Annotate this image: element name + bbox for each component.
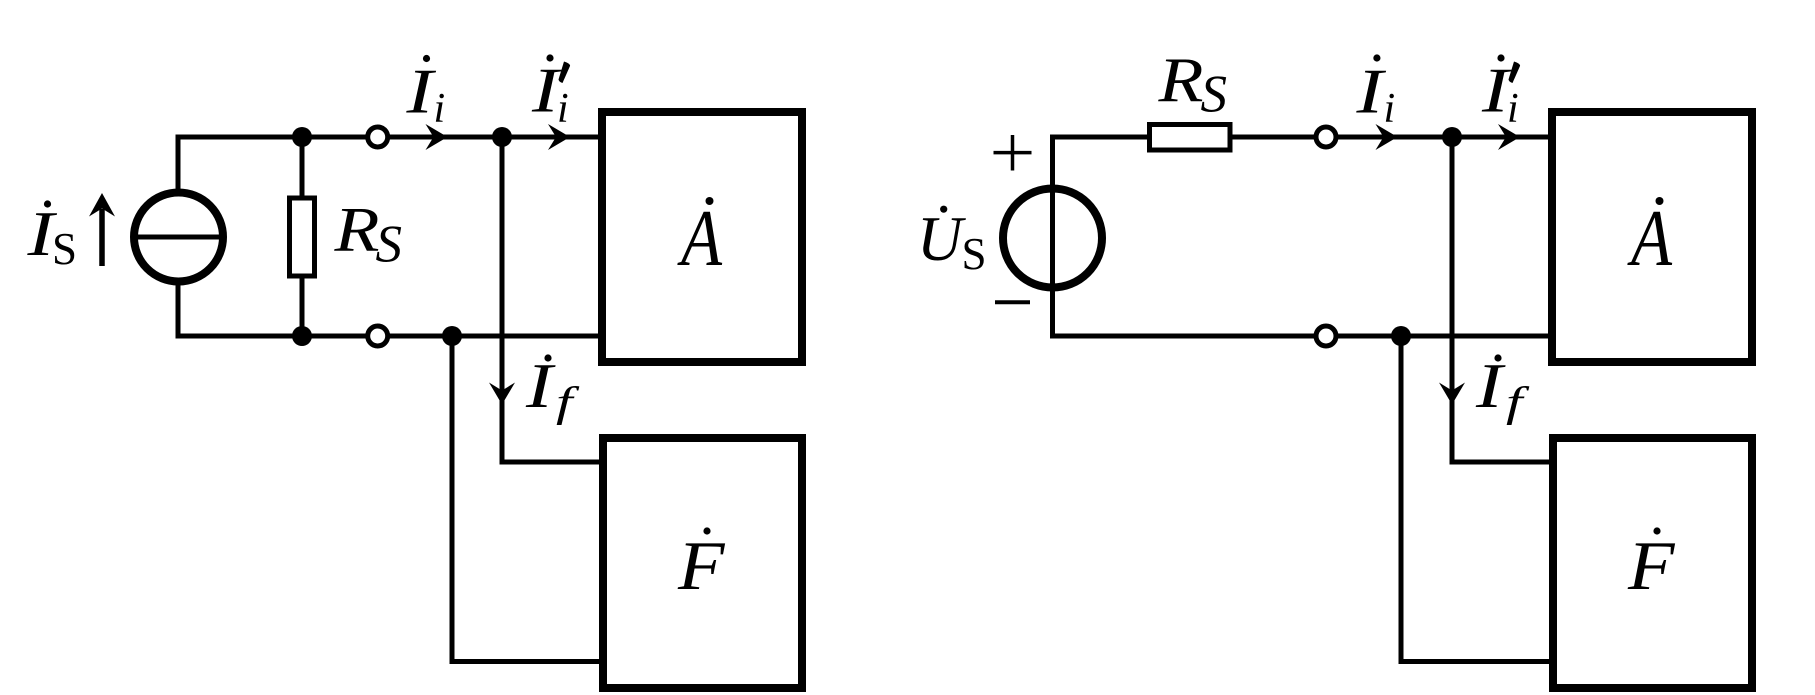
amplifier block A (right circuit) — [1552, 112, 1752, 362]
resistor RS vertical (left circuit) — [290, 198, 315, 276]
feedback block F (left circuit) — [603, 438, 802, 688]
svg-text:f: f — [1506, 380, 1530, 426]
amplifier block A (left circuit) — [602, 112, 802, 362]
label F (right circuit) — [1627, 527, 1676, 605]
svg-text:U: U — [917, 204, 966, 274]
label Ii (left circuit) — [405, 55, 445, 132]
wire feedback return bottom (left circuit) — [452, 336, 599, 662]
label Ii prime (right circuit) — [1481, 54, 1520, 132]
junction dot resistor bottom (left circuit) — [292, 326, 312, 346]
label A (left circuit) — [677, 195, 723, 283]
svg-text:S: S — [52, 224, 77, 274]
arrowhead current Ii (left circuit) — [426, 124, 448, 150]
wire resistor branch RS (left circuit) — [300, 137, 305, 336]
junction dot node top (right circuit) — [1442, 127, 1462, 147]
junction dot node bottom (left circuit) — [442, 326, 462, 346]
svg-text:i: i — [557, 86, 569, 132]
wire left vertical through source (right circuit) — [1053, 137, 1550, 336]
label RS (right circuit) — [1157, 46, 1227, 124]
svg-text:I: I — [1355, 57, 1387, 127]
arrowhead current Ii (right circuit) — [1376, 124, 1398, 150]
svg-text:R: R — [1157, 46, 1203, 116]
arrowhead current If down (right circuit) — [1439, 383, 1465, 405]
junction dot node top right (left circuit) — [492, 127, 512, 147]
wire If feedback elbow (left circuit) — [502, 137, 599, 462]
voltage source US (right circuit) — [1003, 189, 1102, 288]
svg-text:F: F — [677, 528, 726, 605]
label F (left circuit) — [677, 527, 726, 605]
svg-text:i: i — [1384, 86, 1396, 132]
svg-text:R: R — [333, 195, 379, 265]
terminal open circle top (right circuit) — [1316, 127, 1336, 147]
label Ii (right circuit) — [1355, 54, 1395, 132]
svg-text:S: S — [962, 229, 987, 279]
label Ii prime (left circuit) — [531, 54, 570, 132]
label A (right circuit) — [1627, 195, 1673, 283]
svg-text:S: S — [1201, 66, 1228, 124]
arrow of source current IS (left circuit) — [89, 193, 115, 266]
arrowhead current Ii prime (right circuit) — [1498, 124, 1520, 150]
plus sign of source (right circuit) — [994, 135, 1032, 171]
terminal open circle top (left circuit) — [368, 127, 388, 147]
junction dot resistor top (left circuit) — [292, 127, 312, 147]
label If (left circuit) — [525, 351, 580, 426]
svg-text:f: f — [556, 380, 580, 426]
svg-text:A: A — [677, 195, 723, 283]
svg-text:i: i — [1507, 86, 1519, 132]
wire If feedback elbow (right circuit) — [1452, 137, 1549, 462]
svg-text:I: I — [525, 351, 557, 421]
junction dot node bottom (right circuit) — [1391, 326, 1411, 346]
svg-text:F: F — [1627, 528, 1676, 605]
arrowhead current If down (left circuit) — [489, 383, 515, 405]
resistor RS horizontal (right circuit) — [1150, 125, 1231, 151]
svg-text:I: I — [1475, 351, 1507, 421]
svg-text:S: S — [376, 216, 403, 274]
terminal open circle bottom (right circuit) — [1316, 326, 1336, 346]
feedback block F (right circuit) — [1553, 438, 1752, 688]
terminal open circle bottom (left circuit) — [368, 326, 388, 346]
label IS (left circuit) — [26, 199, 77, 274]
svg-text:I: I — [405, 57, 437, 127]
wire feedback return bottom (right circuit) — [1401, 336, 1549, 662]
label RS (left circuit) — [333, 195, 402, 274]
current source IS (left circuit) — [134, 193, 223, 282]
label US (right circuit) — [917, 204, 987, 279]
svg-text:A: A — [1627, 195, 1673, 283]
arrowhead current Ii prime (left circuit) — [548, 124, 570, 150]
minus sign of source (right circuit) — [995, 300, 1030, 304]
svg-text:i: i — [434, 86, 446, 132]
label If (right circuit) — [1475, 351, 1530, 426]
wire top (left circuit) — [178, 137, 599, 336]
